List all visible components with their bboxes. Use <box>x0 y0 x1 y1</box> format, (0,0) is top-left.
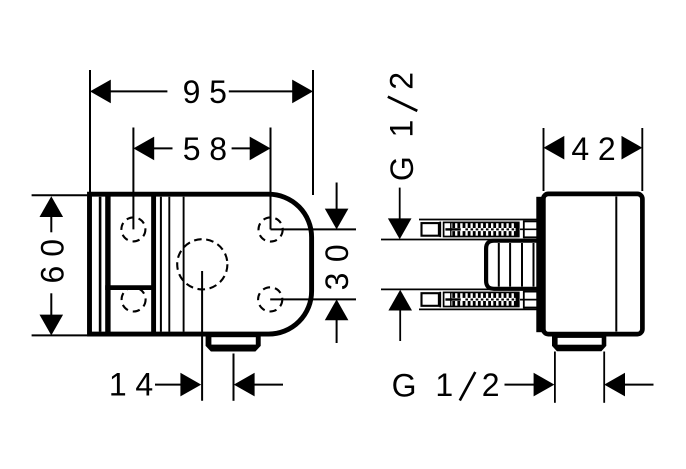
bottom screw collar top edge <box>524 291 538 293</box>
spigot flange window <box>558 338 602 345</box>
G 1/2 top leader line <box>399 188 401 221</box>
dim 60 arrow bottom <box>40 315 64 336</box>
dim 14 line left <box>155 384 182 386</box>
side view face line <box>615 197 617 332</box>
hidden hole bottom-left <box>122 288 146 312</box>
bottom screw thread end bar <box>516 292 520 306</box>
front view bracket inner wall left <box>105 194 110 335</box>
svg-text:30: 30 <box>319 234 355 291</box>
top screw thread end bar <box>516 222 520 236</box>
svg-text:1: 1 <box>435 367 453 403</box>
dim 95 arrow left <box>90 80 111 104</box>
side view body outline <box>543 194 642 334</box>
top screw neck line <box>439 222 441 238</box>
dim 60 extension line top <box>32 194 88 196</box>
spigot flange <box>552 335 606 351</box>
top screw slot line <box>445 228 460 230</box>
dim 95 line right segment <box>229 90 293 92</box>
dim 30 leader top <box>336 183 338 210</box>
dim 58 extension line left <box>132 128 134 230</box>
dim 60 arrow top <box>40 196 64 217</box>
G 1/2 bottom label slash <box>460 372 476 401</box>
dim 42 arrow left <box>544 136 565 160</box>
dim 58 line right segment <box>232 147 251 149</box>
bottom screw head <box>422 293 439 306</box>
front view bracket divider <box>105 285 156 290</box>
dim 95 line left segment <box>110 90 167 92</box>
bottom screw outer outline line <box>419 308 537 310</box>
hidden center bore <box>177 239 227 289</box>
G 1/2 top label slash <box>388 97 418 111</box>
dim 14 arrow right <box>234 373 255 397</box>
dim 42 extension line right <box>641 128 643 191</box>
svg-text:2: 2 <box>482 367 500 403</box>
bottom screw inner outline line <box>381 288 537 290</box>
dim 42 arrow right <box>622 136 643 160</box>
dim 58 extension line right <box>270 128 272 230</box>
dim 30 arrow bottom <box>325 299 349 320</box>
bottom screw neck line <box>439 292 441 308</box>
top screw collar top edge <box>524 220 538 222</box>
dim 95 extension line right <box>312 70 314 195</box>
rib line 3 <box>521 243 523 287</box>
dim 30 extension line top <box>271 228 357 230</box>
center line of bore <box>201 271 203 401</box>
G 1/2 bottom dim line left <box>505 384 535 386</box>
svg-text:58: 58 <box>183 131 236 167</box>
dim 42 extension line left <box>543 128 545 191</box>
top screw outer outline line <box>419 219 537 221</box>
bottom screw thread teeth <box>452 292 516 306</box>
dim 95 arrow right <box>292 80 313 104</box>
top screw shaft outline <box>444 222 519 236</box>
hidden hole top-left <box>121 217 145 241</box>
svg-text:G: G <box>392 367 417 403</box>
G 1/2 bottom-left leader line <box>399 310 401 341</box>
dim 14 arrow left <box>180 373 201 397</box>
front view wall-plate edge line 1 <box>99 197 102 332</box>
svg-text:G: G <box>384 156 420 181</box>
dim 30 extension line bottom <box>270 298 356 300</box>
spigot pipe right line <box>603 352 605 403</box>
front view body edge line b <box>168 197 170 332</box>
dim 60 line bottom segment <box>50 293 52 315</box>
svg-text:2: 2 <box>384 72 420 90</box>
bottom screw shaft outline <box>444 292 519 306</box>
top screw inner outline line <box>381 239 537 241</box>
top screw collar left edge <box>523 221 525 239</box>
top screw thread start line <box>450 222 452 236</box>
top screw collar bottom edge <box>524 236 538 238</box>
dim 14 line right <box>254 384 283 386</box>
svg-text:1: 1 <box>384 120 420 138</box>
bottom screw collar left edge <box>523 291 525 309</box>
spigot pipe left line <box>554 352 556 403</box>
G 1/2 bottom arrow right <box>604 373 625 397</box>
svg-text:14: 14 <box>109 367 162 403</box>
svg-text:60: 60 <box>35 230 71 284</box>
side view wall plate band <box>536 197 545 332</box>
G 1/2 top arrow <box>388 218 412 239</box>
svg-text:42: 42 <box>571 131 624 167</box>
bottom screw collar mid line <box>520 299 537 301</box>
dim 30 arrow top <box>325 209 349 230</box>
G 1/2 bottom-left arrow <box>388 290 412 311</box>
bottom screw slot line <box>445 298 460 300</box>
dim 30 leader bottom <box>336 319 338 343</box>
dim 58 arrow left <box>133 137 154 161</box>
dim 58 arrow right <box>250 137 271 161</box>
bottom tab <box>206 335 261 352</box>
front view body outline <box>90 194 312 334</box>
front view bracket inner wall right <box>151 194 156 335</box>
rib line 1 <box>498 243 500 287</box>
top screw thread teeth <box>452 223 516 237</box>
top screw collar mid line <box>520 228 537 230</box>
top screw pitch dashed line <box>465 228 519 230</box>
middle rib block outline <box>486 241 541 289</box>
bottom screw pitch dashed line <box>465 299 519 301</box>
top screw head <box>422 223 439 236</box>
front view body edge line c <box>183 197 185 332</box>
dim 95 extension line left <box>89 70 91 192</box>
hidden hole top-right <box>259 217 283 241</box>
rib line 4 <box>533 243 535 287</box>
bottom tab window <box>211 337 255 344</box>
G 1/2 bottom dim line right <box>624 384 653 386</box>
G 1/2 bottom arrow left <box>534 373 555 397</box>
dim 14 extension line tab <box>233 354 235 401</box>
front view body edge line a <box>160 197 162 332</box>
dim 58 line left segment <box>153 147 172 149</box>
svg-text:95: 95 <box>183 74 236 110</box>
hidden hole bottom-right <box>258 287 282 311</box>
bottom screw collar bottom edge <box>524 307 538 309</box>
dim 60 extension line bottom <box>32 334 88 336</box>
dim 60 line top segment <box>50 216 52 232</box>
rib line 2 <box>509 243 511 287</box>
bottom screw thread start line <box>450 292 452 306</box>
